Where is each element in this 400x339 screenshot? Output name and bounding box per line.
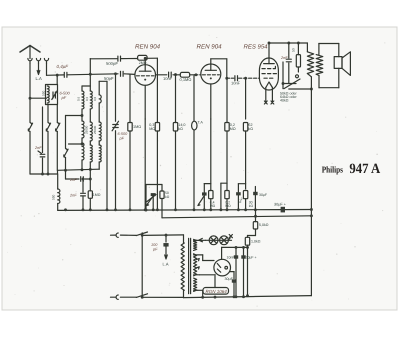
svg-text:10nF: 10nF [163,76,173,81]
svg-text:REN 904: REN 904 [135,44,161,51]
svg-text:10nF: 10nF [231,81,241,86]
svg-text:1MΩ: 1MΩ [133,125,141,129]
svg-text:REN 904: REN 904 [197,44,223,51]
svg-text:T.A: T.A [198,121,204,125]
svg-text:MΩ: MΩ [210,204,216,208]
svg-text:kΩ: kΩ [249,204,254,208]
svg-text:pF: pF [152,247,158,251]
svg-text:kΩ: kΩ [165,195,170,199]
svg-text:30μF: 30μF [259,193,267,197]
svg-text:25000: 25000 [93,125,97,134]
svg-text:0,6: 0,6 [85,96,89,101]
svg-text:1MΩ: 1MΩ [93,193,101,197]
svg-text:pF: pF [61,95,67,100]
svg-text:10nF: 10nF [227,256,235,260]
svg-text:pF: pF [119,137,125,141]
svg-text:1,0kΩ: 1,0kΩ [251,240,261,244]
svg-text:2nF: 2nF [34,146,42,150]
svg-text:MΩ: MΩ [225,204,231,208]
svg-text:30μF +: 30μF + [246,256,257,260]
svg-text:kΩ: kΩ [178,127,183,131]
svg-text:6-500: 6-500 [118,132,129,136]
svg-text:947 A: 947 A [349,161,380,177]
svg-text:MΩ: MΩ [149,127,155,131]
svg-text:μF: μF [238,200,242,204]
svg-text:25000: 25000 [84,125,88,134]
svg-text:550: 550 [42,90,46,96]
svg-text:kΩ: kΩ [248,127,253,131]
svg-text:0,8: 0,8 [93,96,97,101]
svg-text:40kΩ: 40kΩ [280,99,289,103]
svg-text:50: 50 [292,48,296,52]
svg-text:2nF: 2nF [69,178,77,182]
svg-text:Philips: Philips [322,164,344,174]
svg-text:50pF: 50pF [104,76,114,81]
svg-text:2nF: 2nF [69,194,77,198]
svg-text:2nF: 2nF [280,56,288,60]
svg-text:L.A: L.A [163,262,169,267]
svg-text:0,6: 0,6 [77,96,81,101]
svg-text:MΩ: MΩ [230,127,236,131]
svg-text:RGN 1064: RGN 1064 [206,289,228,294]
svg-text:RES 954: RES 954 [244,44,269,51]
svg-text:30μF +: 30μF + [274,202,287,206]
svg-text:30μF: 30μF [225,277,234,281]
svg-text:550: 550 [52,194,56,200]
svg-text:L.A: L.A [36,76,42,81]
svg-text:0,1MΩ: 0,1MΩ [180,77,192,82]
svg-text:0,4μF: 0,4μF [57,64,69,69]
svg-text:500pF: 500pF [106,61,118,66]
svg-text:5,0kΩ: 5,0kΩ [259,223,269,227]
svg-text:100: 100 [151,243,158,247]
